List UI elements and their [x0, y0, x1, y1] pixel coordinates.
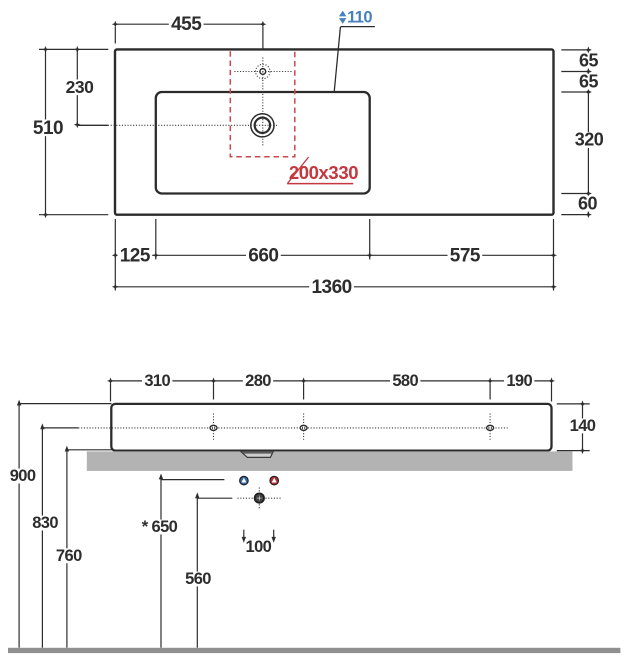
red dashed cutout rectangle 200x330: [230, 51, 294, 157]
svg-text:560: 560: [185, 570, 211, 588]
900 extension to slab top: [19, 403, 111, 405]
faucet hole circle: [260, 69, 266, 75]
label 760: [54, 548, 84, 563]
label 660: [246, 247, 281, 264]
drain outer circle: [251, 114, 274, 137]
bottom extension lines below top view: [114, 219, 116, 291]
front view slab outline: [111, 404, 551, 451]
wall line 830 vertical: [41, 427, 43, 648]
svg-text:200x330: 200x330: [289, 162, 358, 183]
svg-text:230: 230: [66, 77, 94, 97]
label 560: [183, 572, 213, 587]
leader line for 110 depth: [334, 27, 340, 92]
front top dim line 310/280/580/190: [111, 380, 552, 382]
svg-text:760: 760: [56, 547, 82, 565]
svg-text:830: 830: [32, 514, 58, 532]
svg-text:110: 110: [347, 8, 372, 26]
svg-text:455: 455: [171, 14, 202, 35]
svg-text:575: 575: [450, 245, 481, 266]
drain inner circle: [255, 118, 270, 133]
label 125: [117, 247, 152, 264]
dim 510 extension bottom: [39, 214, 108, 216]
label 230: [63, 80, 95, 96]
front centerline solid segment (830 landing): [42, 427, 78, 429]
leader line for 200x330: [287, 157, 308, 184]
dim 140 extension lines: [557, 403, 590, 405]
right chain vertical dim line: [587, 50, 589, 215]
label 830: [30, 516, 60, 531]
basin bowl inner outline: [156, 92, 370, 194]
label 310: [142, 373, 172, 388]
svg-text:280: 280: [245, 372, 271, 390]
right chain extension lines: [561, 49, 590, 51]
svg-text:100: 100: [246, 538, 272, 556]
label 60 (bowl to bottom edge): [576, 196, 600, 212]
supply height line 650 vertical: [160, 478, 162, 648]
dim 510 vertical line: [45, 49, 47, 214]
mounting hole at x=490.1: [489, 414, 491, 442]
mounting hole at x=213.5: [213, 414, 215, 442]
faucet hole dotted circle: [256, 64, 270, 78]
siphon cover top shadow line: [242, 452, 272, 454]
washbasin top view outer outline: [115, 49, 554, 214]
dim 455 extension right: [262, 27, 264, 50]
label 1360: [309, 279, 354, 296]
dim line 125 / 660 / 575: [115, 254, 553, 256]
svg-text:580: 580: [392, 372, 418, 390]
front dim extension lines: [110, 384, 112, 402]
label 140: [567, 418, 597, 433]
faucet hole vertical dotted centerline: [262, 58, 264, 147]
dim 140 vertical line: [582, 404, 584, 451]
label 455: [169, 16, 204, 33]
560 horizontal to drain: [197, 497, 232, 499]
svg-text:900: 900: [10, 467, 36, 485]
drain height line 560 vertical: [196, 496, 198, 648]
dim 455 line: [115, 23, 263, 25]
faucet hole horizontal dotted centerline: [234, 71, 292, 73]
centerline solid segment left (230 dim landing): [77, 124, 108, 126]
650 horizontal to supplies: [161, 479, 224, 481]
mounting hole at x=303.6: [303, 414, 305, 442]
dim 510 extension top: [39, 48, 108, 50]
label 575: [448, 247, 483, 264]
cold supply symbol (red): [270, 476, 279, 485]
label 510: [31, 119, 66, 136]
svg-text:310: 310: [144, 372, 170, 390]
svg-text:65: 65: [579, 50, 599, 70]
svg-text:510: 510: [33, 118, 63, 139]
dim 100 between supplies: [243, 530, 245, 539]
dim 230 vertical line: [76, 49, 78, 124]
svg-text:* 650: * 650: [142, 518, 178, 536]
dim line 1360: [115, 286, 553, 288]
label 65 (faucet to bowl): [577, 74, 601, 90]
svg-text:125: 125: [120, 245, 151, 266]
front centerline dotted: [78, 427, 507, 429]
label 280: [243, 373, 273, 388]
drain fitting: [254, 493, 265, 504]
svg-text:190: 190: [506, 372, 532, 390]
svg-text:65: 65: [579, 71, 599, 91]
760 extension to slab bottom: [67, 449, 112, 451]
label 190: [504, 373, 534, 388]
dim 455 extension left: [114, 27, 116, 44]
gray wall band behind basin: [87, 451, 573, 471]
label *650: [136, 520, 183, 535]
label 900: [7, 469, 37, 484]
svg-text:660: 660: [248, 245, 278, 266]
label 580: [390, 373, 420, 388]
svg-text:140: 140: [570, 417, 596, 435]
label 320 (bowl depth): [572, 132, 605, 148]
svg-text:320: 320: [575, 130, 604, 150]
siphon cover trapezoid: [241, 451, 274, 457]
svg-text:60: 60: [578, 193, 598, 213]
floor line: [8, 648, 620, 653]
hot supply symbol (blue): [240, 476, 249, 485]
svg-text:1360: 1360: [311, 277, 351, 298]
wall line 760 vertical: [66, 449, 68, 648]
drain fitting dotted cross: [238, 497, 282, 499]
wall line 900 vertical: [18, 403, 20, 647]
blue depth arrows: [339, 11, 346, 17]
label 65 (top edge to faucet): [577, 53, 601, 69]
centerline dotted horizontal through drain: [108, 124, 279, 126]
